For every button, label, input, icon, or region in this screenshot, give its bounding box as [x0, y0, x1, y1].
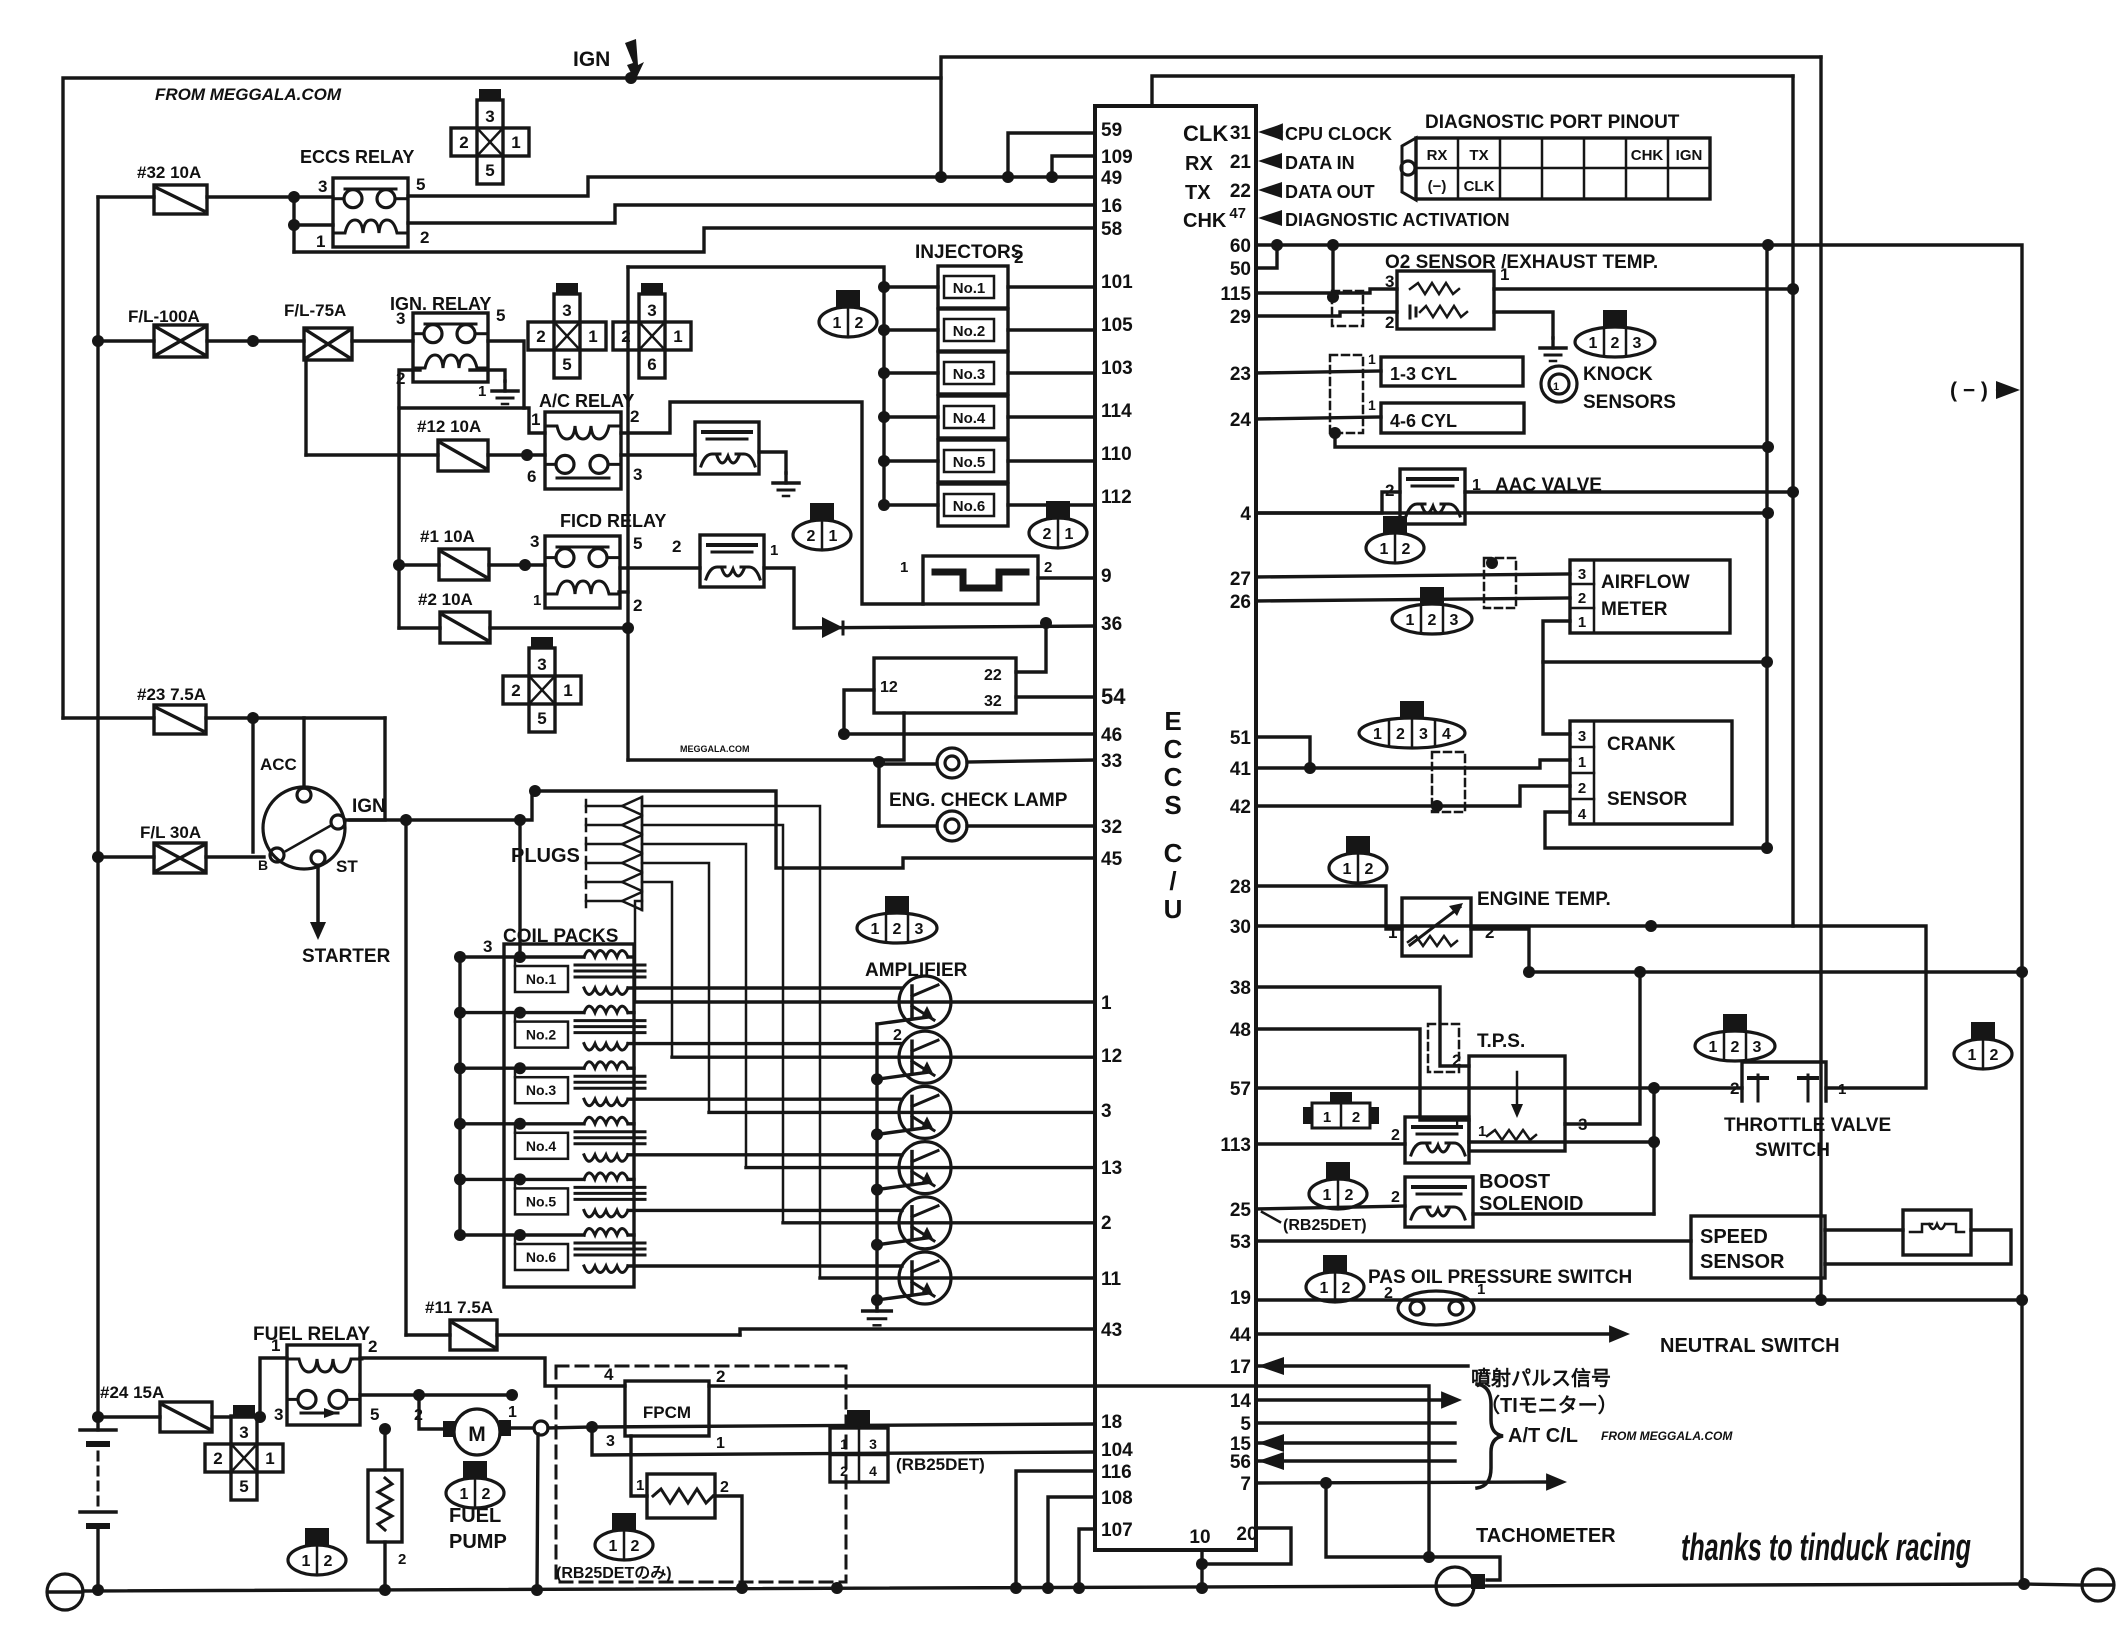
ignition coil No.4 [454, 1118, 466, 1130]
wire plug 2 to coil [642, 825, 783, 1222]
svg-text:9: 9 [1101, 566, 1112, 587]
svg-text:No.6: No.6 [526, 1249, 557, 1265]
svg-text:5: 5 [370, 1405, 379, 1424]
svg-text:112: 112 [1101, 487, 1132, 508]
svg-text:2: 2 [1578, 780, 1586, 797]
wire pin15 [1256, 1441, 1455, 1444]
svg-text:No.5: No.5 [953, 454, 986, 471]
wire pin32 [967, 824, 1095, 827]
svg-text:B: B [258, 857, 268, 873]
wire TPS3 up [1565, 972, 1640, 1124]
svg-text:46: 46 [1101, 725, 1122, 746]
svg-text:110: 110 [1101, 444, 1132, 465]
wire pin19 long [1256, 1298, 2022, 1301]
wire coil No.2 secondary out [628, 1042, 902, 1045]
node ECCS top to diag port frame [1152, 76, 1793, 106]
svg-text:60: 60 [1230, 236, 1251, 257]
wire pin26 [1256, 598, 1570, 601]
pin21 data in [1258, 153, 1282, 169]
svg-text:1: 1 [1500, 265, 1509, 284]
svg-text:SENSOR: SENSOR [1700, 1251, 1785, 1273]
svg-text:2: 2 [855, 315, 864, 332]
wire ACC vertical [302, 718, 305, 788]
svg-text:4: 4 [1578, 806, 1587, 823]
wire fuel relay pin2 to FPCM pin4 [360, 1358, 625, 1386]
svg-text:1: 1 [609, 1538, 618, 1555]
svg-text:DATA IN: DATA IN [1285, 153, 1355, 173]
svg-text:No.3: No.3 [953, 366, 986, 383]
svg-text:2: 2 [720, 1479, 729, 1496]
wire coil No.6 secondary out [628, 1264, 902, 1267]
wire knock common [1335, 433, 1768, 447]
diagnostic port table [1402, 138, 1416, 200]
oval connector 1|2 injectors [836, 290, 860, 307]
svg-text:1: 1 [1380, 541, 1389, 558]
svg-text:103: 103 [1101, 358, 1133, 379]
svg-text:1: 1 [636, 1477, 644, 1494]
wire 60 dots [1271, 239, 1283, 251]
svg-text:2: 2 [1352, 1109, 1360, 1126]
svg-text:#11 7.5A: #11 7.5A [425, 1298, 493, 1317]
svg-text:54: 54 [1101, 684, 1126, 709]
svg-text:1: 1 [1323, 1187, 1332, 1204]
svg-text:2: 2 [631, 1538, 640, 1555]
svg-text:1: 1 [508, 1404, 517, 1421]
coil pack feed bus [518, 820, 521, 957]
wire #12 row [306, 453, 438, 456]
wire IGN relay pin5 bend [488, 341, 524, 408]
svg-text:12: 12 [880, 679, 898, 696]
svg-text:3: 3 [537, 655, 546, 674]
svg-text:2: 2 [1391, 1189, 1400, 1206]
svg-text:2: 2 [1385, 313, 1394, 332]
svg-text:FPCM: FPCM [643, 1403, 691, 1422]
svg-text:FUEL: FUEL [449, 1505, 501, 1527]
wire emitter 5 [877, 1238, 928, 1245]
oval connector 1|2 engtemp [1346, 836, 1370, 853]
svg-text:2: 2 [716, 1367, 725, 1386]
boost solenoid [1405, 1177, 1473, 1227]
wire collector 3 to pin [709, 1111, 1095, 1114]
svg-text:2: 2 [536, 327, 545, 346]
wire pin27 [1256, 574, 1570, 577]
svg-text:3: 3 [1633, 335, 1642, 352]
svg-text:No.2: No.2 [953, 323, 986, 340]
oval connector 1|2 PAS [1323, 1255, 1347, 1272]
oval connector 1|2 fuel pump [463, 1461, 487, 1478]
wire #11 [406, 1333, 450, 1336]
wire pin43 [740, 1329, 1095, 1335]
wire #32 row [98, 195, 154, 198]
svg-text:ENG. CHECK LAMP: ENG. CHECK LAMP [889, 790, 1068, 811]
connector cross mid [531, 637, 553, 648]
svg-text:1: 1 [588, 327, 597, 346]
wire pin38 to TPS2 [1256, 987, 1469, 1066]
wire emitter 6 [877, 1293, 928, 1300]
svg-text:3: 3 [869, 1436, 877, 1452]
wire O2 pin1 to bus [1494, 287, 1793, 290]
wire x306 drop from F/L75A [304, 360, 307, 455]
wire pump circle to bus [537, 1434, 538, 1590]
wire emitter 4 [877, 1183, 928, 1190]
svg-text:1: 1 [673, 327, 682, 346]
wire plug 1 to coil [642, 806, 820, 1277]
svg-text:115: 115 [1220, 284, 1251, 305]
wire FPCM pin3 to resistor [631, 1436, 647, 1496]
svg-text:NEUTRAL SWITCH: NEUTRAL SWITCH [1660, 1335, 1840, 1357]
svg-text:3: 3 [562, 301, 571, 320]
wire to pin104 [592, 1427, 1095, 1455]
svg-text:2: 2 [1345, 1187, 1354, 1204]
svg-text:26: 26 [1230, 592, 1251, 613]
wire crank4 down [1545, 812, 1767, 848]
wire FICD solenoid to diode pin36 [764, 568, 1095, 628]
svg-text:#32 10A: #32 10A [137, 163, 201, 182]
wire pin33 [967, 760, 1095, 762]
wire pin14 [1256, 1398, 1448, 1401]
svg-text:#12 10A: #12 10A [417, 417, 481, 436]
svg-text:1: 1 [1477, 1281, 1485, 1298]
svg-text:53: 53 [1230, 1232, 1251, 1253]
wire #23 row [63, 716, 154, 719]
svg-text:47: 47 [1229, 205, 1246, 222]
svg-text:1: 1 [1343, 861, 1352, 878]
svg-text:2: 2 [893, 921, 902, 938]
svg-text:DIAGNOSTIC PORT PINOUT: DIAGNOSTIC PORT PINOUT [1425, 112, 1680, 133]
svg-text:1: 1 [1368, 397, 1376, 413]
wire F/L row [98, 339, 154, 342]
svg-text:31: 31 [1230, 123, 1252, 144]
svg-text:51: 51 [1230, 728, 1252, 749]
PAS switch oval [1398, 1291, 1474, 1325]
svg-text:3: 3 [485, 107, 494, 126]
spark plug 4 [585, 857, 588, 869]
wire coil No.3 secondary out [628, 1097, 902, 1100]
wire FPCM pin2 long right [709, 1386, 1429, 1557]
svg-text:TACHOMETER: TACHOMETER [1476, 1525, 1616, 1547]
svg-text:THROTTLE VALVE: THROTTLE VALVE [1724, 1115, 1891, 1136]
oval connector 1|2|3 amplifier [885, 896, 909, 913]
svg-text:24: 24 [1230, 410, 1252, 431]
svg-text:7: 7 [1240, 1474, 1251, 1495]
svg-text:58: 58 [1101, 219, 1122, 240]
svg-text:3: 3 [1578, 728, 1586, 745]
oval connector 1|2 idle [1383, 516, 1407, 533]
svg-text:/: / [1169, 866, 1176, 896]
svg-text:No.1: No.1 [526, 971, 557, 987]
svg-text:48: 48 [1230, 1020, 1251, 1041]
wire pin24 [1256, 417, 1381, 419]
wire collector 6 to pin [820, 1276, 1095, 1279]
connector 4cell 1 3 2 4 [847, 1410, 870, 1428]
wire airflow to crank link [1543, 660, 1767, 663]
wire pin56 [1256, 1459, 1455, 1462]
wire pin9 [1038, 576, 1095, 579]
svg-text:16: 16 [1101, 196, 1122, 217]
wire #24 row [98, 1415, 160, 1418]
svg-text:U: U [1164, 894, 1183, 924]
svg-text:F/L-100A: F/L-100A [128, 307, 200, 326]
connector cross fuel [233, 1405, 255, 1416]
pin31 cpu clock [1262, 123, 1283, 141]
svg-text:1: 1 [478, 383, 486, 400]
svg-text:23: 23 [1230, 364, 1251, 385]
oval connector 1|2 FPCM [612, 1513, 636, 1530]
svg-text:2: 2 [420, 228, 429, 247]
svg-text:1: 1 [316, 232, 325, 251]
wire coil No.4 secondary out [628, 1153, 902, 1156]
svg-text:2: 2 [1391, 1127, 1400, 1144]
svg-text:5: 5 [633, 534, 642, 553]
oval connector 2|1 a [810, 503, 834, 520]
wire emitter 3 [877, 1127, 928, 1134]
svg-text:4: 4 [1442, 726, 1451, 743]
svg-text:28: 28 [1230, 877, 1251, 898]
lamp 32 [937, 811, 967, 841]
ground A/C solenoid [759, 452, 786, 473]
svg-text:2: 2 [1731, 1039, 1740, 1056]
svg-text:5: 5 [485, 161, 494, 180]
svg-text:PUMP: PUMP [449, 1531, 507, 1553]
wire ECCS relay pin2 to pin 16 [408, 205, 1095, 223]
svg-text:CRANK: CRANK [1607, 734, 1676, 755]
wire ECCS relay pin1 branch [292, 197, 295, 252]
wire ECCS relay pin1 to pin 58 [294, 228, 1095, 252]
svg-text:3: 3 [239, 1423, 248, 1442]
svg-text:33: 33 [1101, 751, 1122, 772]
oval connector 1|2 TVS [1971, 1022, 1995, 1039]
svg-text:1: 1 [1323, 1109, 1331, 1126]
wire temp common row [1529, 970, 2022, 973]
svg-text:IGN: IGN [1676, 147, 1703, 164]
transistor amplifier 5 [899, 1197, 951, 1249]
svg-text:1: 1 [900, 559, 908, 576]
amplifier emitter bus [875, 1024, 878, 1307]
injector No.3 [878, 367, 890, 379]
svg-text:SOLENOID: SOLENOID [1479, 1193, 1583, 1215]
wire pin20 loop [1202, 1528, 1291, 1564]
svg-text:21: 21 [1230, 152, 1252, 173]
wire right bus vertical [1256, 245, 2022, 1584]
svg-text:MEGGALA.COM: MEGGALA.COM [680, 744, 750, 754]
svg-text:50: 50 [1230, 259, 1251, 280]
wire pin42 to crank2 [1256, 786, 1570, 806]
svg-text:1: 1 [833, 315, 842, 332]
svg-text:M: M [468, 1423, 486, 1446]
battery [96, 1417, 99, 1430]
spark plug 3 [585, 838, 588, 850]
svg-text:No.2: No.2 [526, 1027, 557, 1043]
injector No.1 [878, 281, 890, 293]
connector block 1|2 solenoid1 [1312, 1103, 1370, 1128]
svg-text:No.4: No.4 [526, 1138, 557, 1154]
svg-text:No.1: No.1 [953, 280, 986, 297]
svg-text:1: 1 [460, 1486, 469, 1503]
svg-text:PAS OIL PRESSURE SWITCH: PAS OIL PRESSURE SWITCH [1368, 1267, 1632, 1288]
svg-text:5: 5 [496, 306, 505, 325]
wire collector 4 to pin [746, 1166, 1095, 1169]
svg-text:3: 3 [274, 1405, 283, 1424]
svg-text:（TIモニター）: （TIモニター） [1480, 1394, 1618, 1417]
wire pin5 [1256, 1421, 1455, 1424]
wire pin44 neutral switch [1256, 1332, 1616, 1335]
wire F/L30 row [98, 855, 154, 858]
svg-text:#2 10A: #2 10A [418, 590, 473, 609]
box 4-6 CYL [1381, 403, 1524, 433]
wire top-right vertical [1819, 57, 1822, 1300]
svg-text:1: 1 [563, 681, 572, 700]
svg-text:1: 1 [1578, 614, 1586, 631]
svg-text:2: 2 [1611, 335, 1620, 352]
svg-text:2: 2 [398, 1551, 406, 1568]
knock sensor symbol [1541, 366, 1577, 402]
diode pin36 [822, 617, 843, 638]
wire fuel relay coil feed [260, 1358, 287, 1417]
injector No.5 [878, 455, 890, 467]
wire engtemp out [1471, 929, 1529, 972]
z-block air regulator [923, 556, 1038, 604]
svg-text:2: 2 [1101, 1213, 1112, 1234]
wire ECCS bottom to bus [1200, 1550, 1203, 1588]
svg-text:KNOCK: KNOCK [1583, 364, 1653, 385]
svg-text:INJECTORS: INJECTORS [915, 242, 1023, 263]
wire pin50 hook [1256, 245, 1277, 268]
svg-text:2: 2 [630, 407, 639, 426]
svg-text:3: 3 [915, 921, 924, 938]
svg-text:3: 3 [1578, 566, 1586, 583]
wire pin29 to O2 pin2 [1256, 312, 1397, 316]
transistor amplifier 4 [899, 1142, 951, 1194]
svg-text:108: 108 [1101, 1488, 1133, 1509]
svg-text:5: 5 [537, 709, 546, 728]
wire FICD contact to solenoid [620, 566, 700, 569]
wire coil No.5 secondary out [628, 1209, 902, 1212]
svg-text:2: 2 [672, 537, 681, 556]
svg-text:6: 6 [527, 467, 536, 486]
wire IGN relay pin2 down [399, 370, 420, 628]
svg-text:1: 1 [1589, 335, 1598, 352]
svg-text:116: 116 [1101, 1462, 1132, 1483]
terminal circle bottom-right [2082, 1569, 2114, 1601]
svg-text:1: 1 [511, 133, 520, 152]
svg-text:13: 13 [1101, 1158, 1122, 1179]
spark plug 6 [585, 895, 588, 907]
svg-text:2: 2 [840, 1463, 848, 1479]
svg-text:DATA OUT: DATA OUT [1285, 182, 1375, 202]
svg-text:38: 38 [1230, 978, 1251, 999]
wire A/C contact to solenoid [621, 453, 695, 456]
AT CL brace [1477, 1384, 1503, 1488]
svg-text:1: 1 [829, 528, 838, 545]
svg-text:1-3 CYL: 1-3 CYL [1390, 364, 1457, 384]
svg-text:4: 4 [604, 1365, 614, 1384]
solenoid 113 [1405, 1117, 1469, 1163]
wire A/C coil out [621, 402, 923, 604]
svg-text:101: 101 [1101, 272, 1133, 293]
svg-text:TX: TX [1185, 182, 1211, 204]
svg-text:57: 57 [1230, 1079, 1251, 1100]
svg-text:CLK: CLK [1183, 121, 1228, 146]
svg-text:CHK: CHK [1631, 147, 1664, 164]
svg-text:6: 6 [647, 355, 656, 374]
reed switch box [1903, 1210, 1971, 1255]
pin47 diagnostic activation [1258, 210, 1282, 226]
svg-text:3: 3 [1450, 612, 1459, 629]
wire AAC out [1465, 490, 1793, 493]
spark plug 5 [585, 876, 588, 888]
transistor amplifier 6 [899, 1252, 951, 1304]
svg-text:BOOST: BOOST [1479, 1171, 1550, 1193]
svg-text:1: 1 [1968, 1047, 1977, 1064]
svg-text:12: 12 [1101, 1046, 1122, 1067]
connector cross near ECCS relay [479, 89, 501, 100]
svg-text:5: 5 [239, 1477, 248, 1496]
svg-text:36: 36 [1101, 614, 1122, 635]
svg-text:C: C [1164, 838, 1183, 868]
svg-text:25: 25 [1230, 1200, 1252, 1221]
svg-text:(RB25DETのみ): (RB25DETのみ) [556, 1565, 672, 1582]
svg-text:RX: RX [1185, 153, 1213, 175]
svg-text:IGN: IGN [352, 796, 386, 817]
wire pin113 [1256, 1142, 1405, 1145]
wire plug 6 to coil [635, 901, 642, 1002]
wire motor to circle junction [511, 1426, 534, 1429]
injector No.4 [878, 411, 890, 423]
svg-text:17: 17 [1230, 1357, 1251, 1378]
svg-text:4: 4 [869, 1463, 877, 1479]
wire to pin18 [592, 1424, 1095, 1427]
svg-text:3: 3 [606, 1433, 615, 1450]
wire pin25 [1256, 1206, 1405, 1209]
svg-text:11: 11 [1101, 1269, 1122, 1290]
svg-text:ECCS RELAY: ECCS RELAY [300, 147, 414, 167]
svg-text:27: 27 [1230, 569, 1251, 590]
svg-text:ENGINE TEMP.: ENGINE TEMP. [1477, 889, 1611, 910]
connector dashed TPS [1428, 1024, 1459, 1072]
wire pin30 TVS loop [1256, 926, 1926, 1088]
wire pin17 [1256, 1364, 1468, 1367]
AAC valve [1400, 469, 1465, 524]
wire box bottom loop [628, 713, 904, 760]
svg-text:19: 19 [1230, 1288, 1251, 1309]
wire top drop x941 [939, 78, 942, 177]
wire coil No.1 secondary out [628, 986, 902, 989]
wire collector 2 to pin [672, 1055, 1095, 1058]
transistor amplifier 1 [899, 976, 951, 1028]
connector dashed crank [1432, 752, 1465, 812]
svg-text:#23 7.5A: #23 7.5A [137, 685, 206, 704]
throttle valve switch symbol [1742, 1062, 1826, 1101]
svg-text:C: C [1164, 762, 1183, 792]
svg-text:1: 1 [1553, 381, 1559, 393]
wire boost out [1473, 1212, 1654, 1215]
ground amplifier [875, 1300, 878, 1311]
svg-text:3: 3 [318, 177, 327, 196]
svg-text:2: 2 [368, 1337, 377, 1356]
svg-text:1: 1 [533, 592, 541, 609]
wire pin57 [1256, 1086, 1742, 1089]
svg-text:(RB25DET): (RB25DET) [896, 1455, 985, 1474]
lamp 33 [937, 748, 967, 778]
svg-text:2: 2 [1402, 541, 1411, 558]
svg-text:FROM MEGGALA.COM: FROM MEGGALA.COM [155, 85, 342, 104]
wire fuel relay contact out [360, 1393, 419, 1396]
wire x1335 drop [1331, 245, 1334, 297]
svg-text:ST: ST [336, 857, 358, 876]
svg-text:STARTER: STARTER [302, 946, 391, 967]
speed sensor box [1691, 1216, 1825, 1278]
wire airflow pin1 down [1543, 621, 1570, 734]
